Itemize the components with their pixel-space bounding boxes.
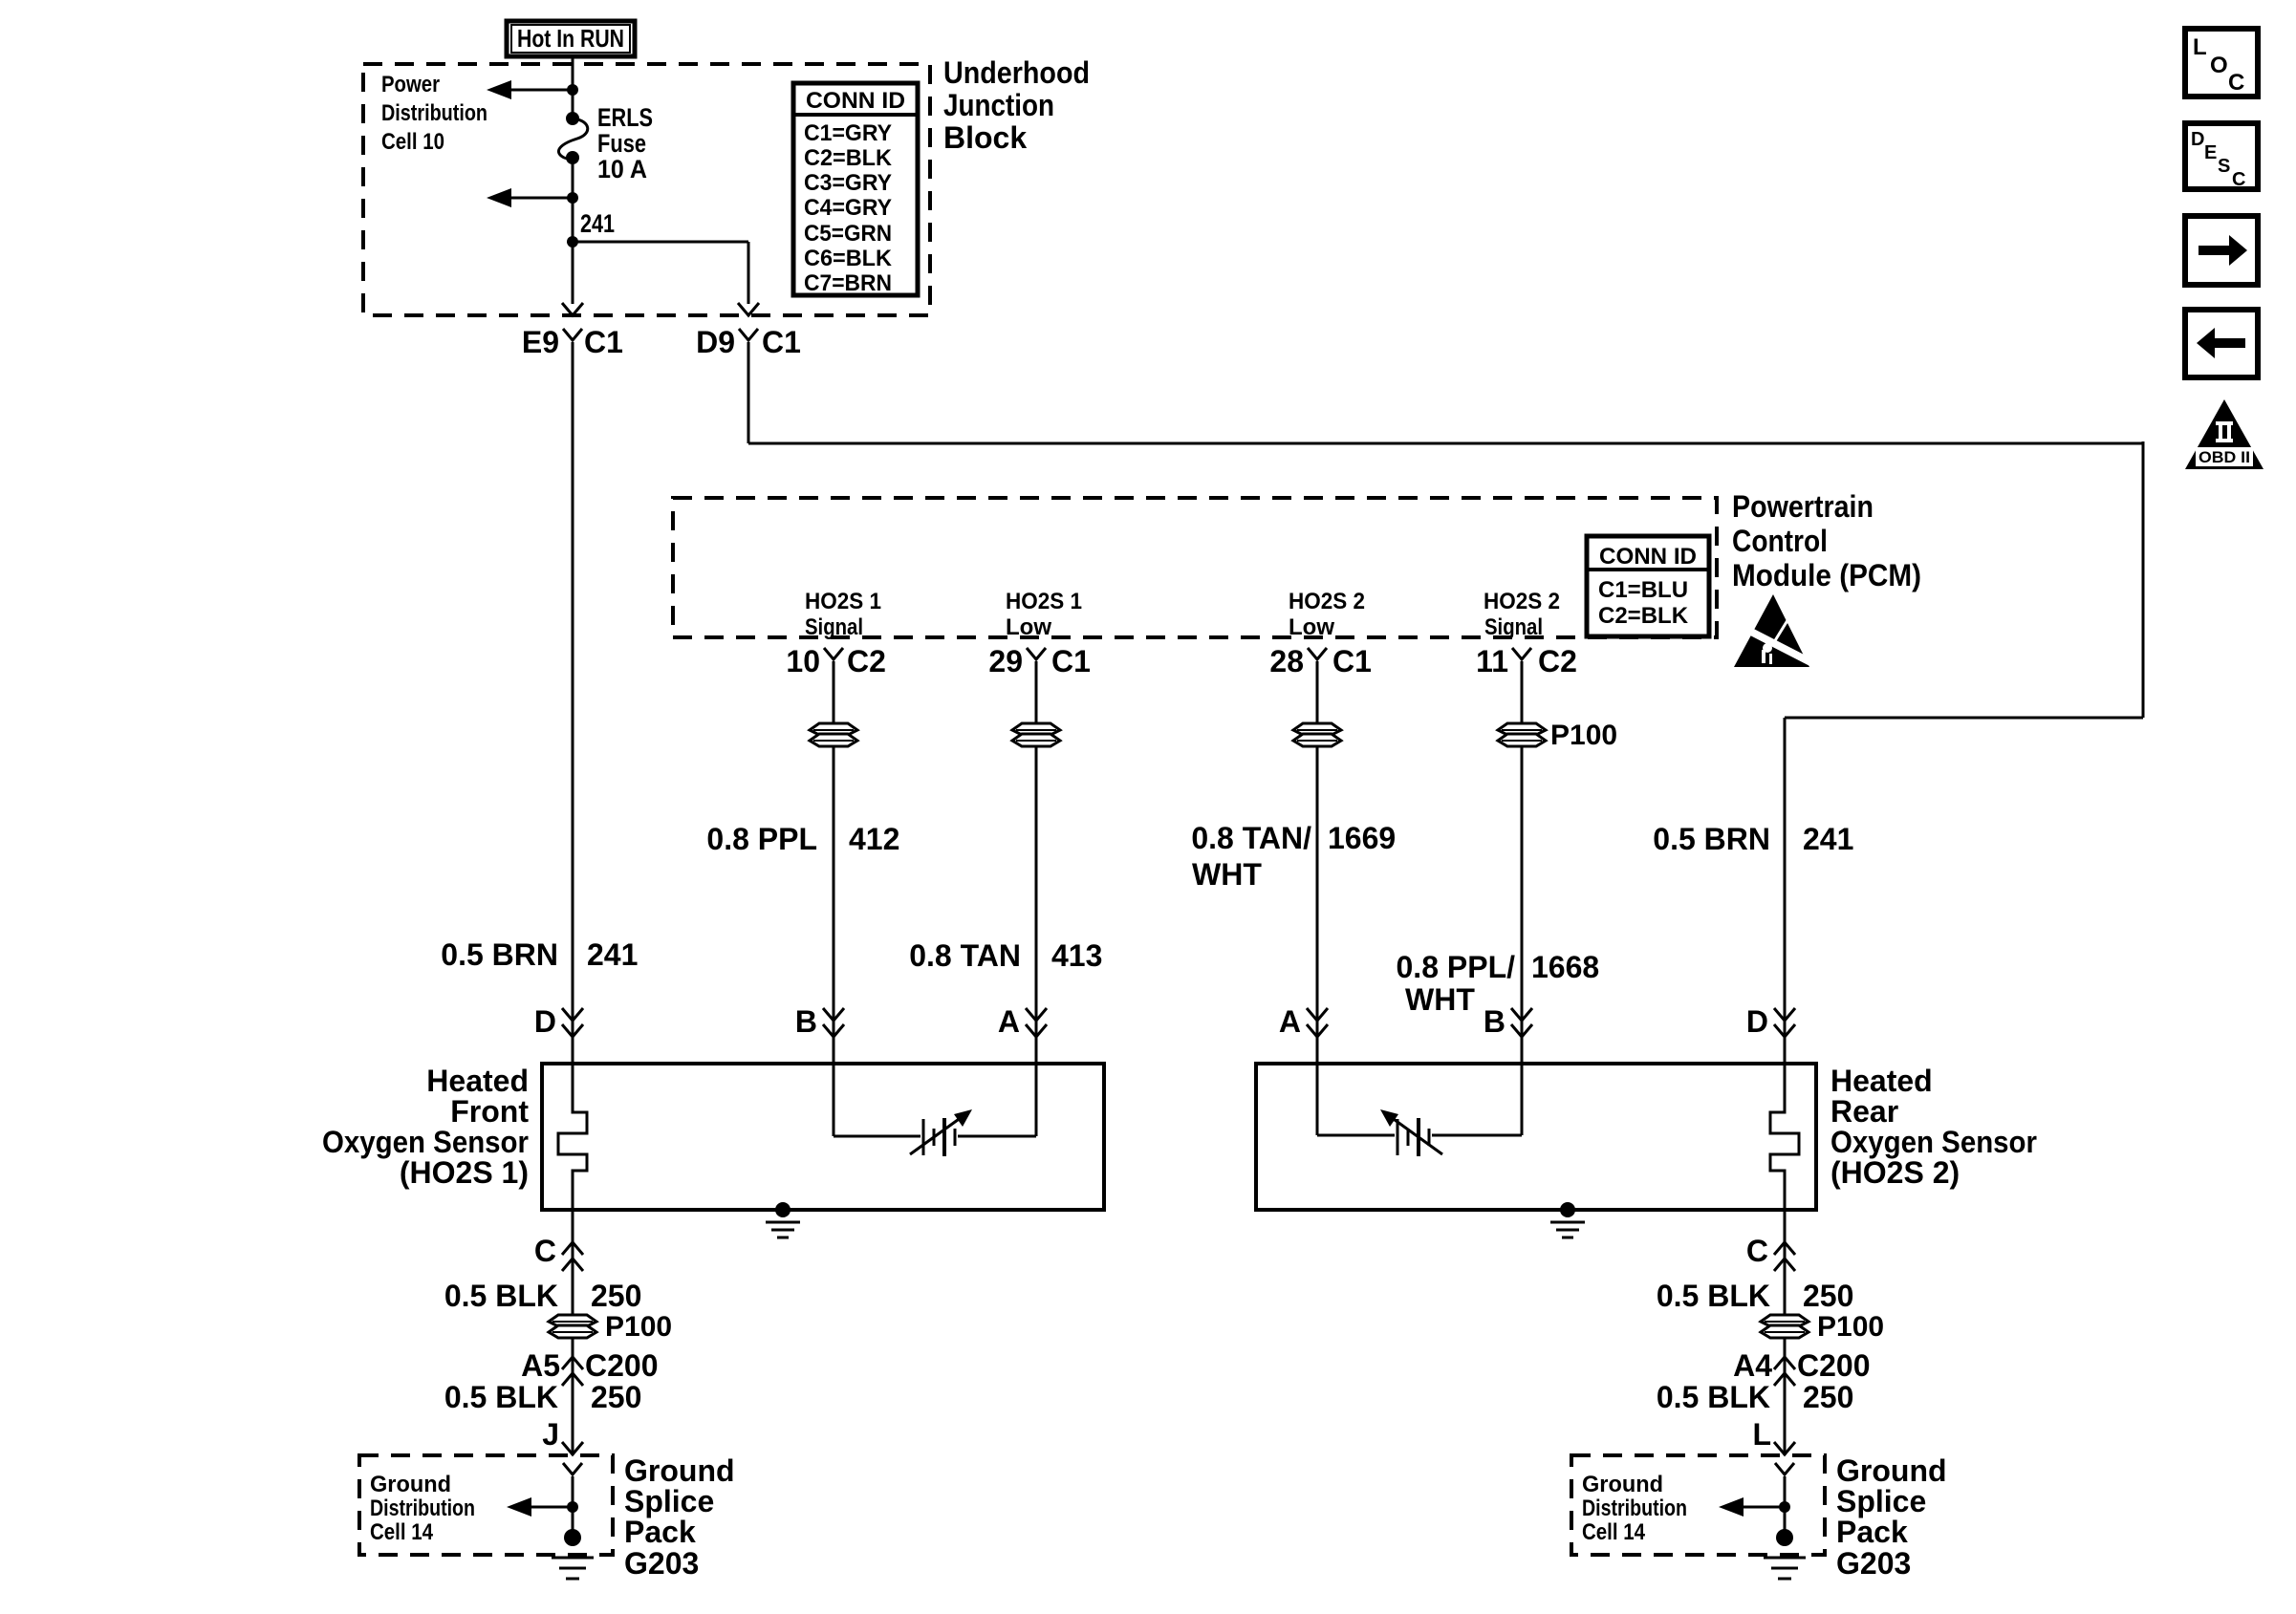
pin C arrow out of sensor (right) <box>1746 1210 1795 1455</box>
svg-text:WHT: WHT <box>1405 982 1475 1017</box>
label: Ground Distribution Cell 14 (left) <box>370 1472 475 1545</box>
svg-text:Pack: Pack <box>1836 1515 1908 1549</box>
svg-text:Low: Low <box>1289 614 1334 640</box>
sensor element (rear) <box>1380 1109 1442 1156</box>
svg-text:C1: C1 <box>762 325 801 359</box>
wire: B to sensor element (front) <box>834 1064 921 1136</box>
svg-text:C2=BLK: C2=BLK <box>804 145 893 171</box>
grommet on wire 1669 <box>1293 723 1341 735</box>
PCM dashed boundary <box>673 498 1717 637</box>
svg-text:D: D <box>1746 1004 1768 1039</box>
svg-text:Distribution: Distribution <box>381 100 487 126</box>
svg-text:G203: G203 <box>624 1546 699 1581</box>
svg-text:A: A <box>998 1004 1020 1039</box>
pin A arrow into sensor <box>1279 1004 1328 1039</box>
ground distribution dashed boundary (right) <box>1571 1455 1825 1555</box>
svg-text:Oxygen Sensor: Oxygen Sensor <box>1830 1125 2037 1159</box>
connector D9 C1 <box>696 325 801 359</box>
svg-text:250: 250 <box>1803 1380 1853 1414</box>
svg-text:Cell 14: Cell 14 <box>370 1519 434 1545</box>
svg-text:CONN ID: CONN ID <box>1599 544 1697 570</box>
svg-text:Rear: Rear <box>1830 1094 1898 1129</box>
ground G203 (right) <box>1764 1529 1806 1579</box>
grommet P100 (right) <box>1761 1311 1884 1343</box>
svg-text:WHT: WHT <box>1192 857 1262 892</box>
PCM pin 28 C1 <box>1269 644 1372 678</box>
PCM pin label HO2S 1 Signal <box>805 589 881 640</box>
svg-text:A: A <box>1279 1004 1301 1039</box>
svg-text:C2: C2 <box>847 644 886 678</box>
wire 412: pin 10 to HO2S1 B <box>833 661 835 1064</box>
connector A4 C200 (right) <box>1733 1348 1870 1386</box>
svg-text:C1=BLU: C1=BLU <box>1598 577 1688 603</box>
svg-text:10 A: 10 A <box>597 155 647 183</box>
svg-text:CONN ID: CONN ID <box>806 88 905 114</box>
svg-text:Front: Front <box>450 1094 529 1129</box>
svg-text:Ground: Ground <box>370 1472 451 1497</box>
svg-text:G203: G203 <box>1836 1546 1911 1581</box>
wire label 0.8 TAN/WHT 1669 <box>1191 821 1396 892</box>
svg-text:250: 250 <box>591 1279 641 1313</box>
ESD sensitivity symbol <box>1734 594 1818 667</box>
svg-text:Splice: Splice <box>624 1484 714 1518</box>
svg-text:0.8 PPL/: 0.8 PPL/ <box>1397 950 1516 984</box>
label: Power Distribution Cell 10 <box>381 72 487 155</box>
svg-text:OBD II: OBD II <box>2199 448 2250 466</box>
wire 1668: pin 11 to HO2S2 B <box>1521 661 1524 1064</box>
wire label 0.5 BRN 241 (left) <box>441 937 638 972</box>
svg-text:C1: C1 <box>1051 644 1091 678</box>
svg-text:C2: C2 <box>1538 644 1577 678</box>
svg-text:C200: C200 <box>1797 1348 1871 1383</box>
wire label 0.8 PPL 412 <box>706 822 899 856</box>
svg-text:Signal: Signal <box>1484 614 1543 640</box>
splice connector Y (left) <box>563 1463 582 1538</box>
PCM pin 11 C2 <box>1476 644 1577 678</box>
svg-text:C7=BRN: C7=BRN <box>804 270 892 296</box>
prev-page arrow button <box>2185 310 2258 377</box>
svg-text:D: D <box>2191 129 2204 150</box>
svg-text:Control: Control <box>1732 524 1828 558</box>
svg-text:0.8 TAN/: 0.8 TAN/ <box>1191 821 1311 855</box>
svg-text:Heated: Heated <box>1830 1064 1933 1098</box>
svg-text:0.5 BLK: 0.5 BLK <box>444 1279 558 1313</box>
sensor element (front) <box>910 1109 972 1156</box>
svg-text:B: B <box>795 1004 817 1039</box>
wire label 0.5 BLK 250 lower (right) <box>1657 1380 1854 1414</box>
PCM pin label HO2S 1 Low <box>1006 589 1082 640</box>
svg-text:Ground: Ground <box>1582 1472 1663 1497</box>
svg-text:E9: E9 <box>522 325 559 359</box>
wire label 0.8 PPL/WHT 1668 <box>1397 950 1600 1017</box>
svg-text:Cell 10: Cell 10 <box>381 129 444 155</box>
svg-text:L: L <box>2193 34 2207 60</box>
wire 241: E9 down to HO2S1 pin D <box>572 342 574 1064</box>
PCM pin 10 C2 <box>786 644 886 678</box>
svg-text:Pack: Pack <box>624 1515 696 1549</box>
svg-text:Ground: Ground <box>1836 1453 1947 1488</box>
svg-text:C200: C200 <box>585 1348 659 1383</box>
svg-text:P100: P100 <box>1550 720 1617 751</box>
svg-text:E: E <box>2204 142 2217 163</box>
splice branch arrow (left) <box>507 1497 578 1517</box>
svg-text:A4: A4 <box>1733 1348 1772 1383</box>
PCM pin 29 C1 <box>988 644 1091 678</box>
svg-text:Fuse: Fuse <box>597 129 646 158</box>
next-page arrow button <box>2185 216 2258 285</box>
svg-text:Heated: Heated <box>426 1064 529 1098</box>
wire 241: D9 route right and down to HO2S2 pin D <box>748 342 2143 1064</box>
svg-text:241: 241 <box>587 937 638 972</box>
junction: feed branch 1 <box>567 84 578 96</box>
underhood junction block dashed boundary <box>363 64 930 315</box>
svg-text:HO2S 1: HO2S 1 <box>1006 589 1082 614</box>
ground junction on rear sensor case <box>1550 1202 1585 1237</box>
svg-text:0.8 TAN: 0.8 TAN <box>909 938 1021 973</box>
connector A5 C200 (left) <box>521 1348 658 1386</box>
svg-text:250: 250 <box>591 1380 641 1414</box>
DESC nav button <box>2185 123 2258 190</box>
splice branch arrow (right) <box>1719 1497 1790 1517</box>
svg-text:0.5 BLK: 0.5 BLK <box>444 1380 558 1414</box>
grommet P100 (left) <box>549 1311 672 1343</box>
label: Ground Splice Pack G203 (right) <box>1836 1453 1947 1581</box>
svg-text:Underhood: Underhood <box>943 55 1090 90</box>
svg-text:Splice: Splice <box>1836 1484 1926 1518</box>
svg-text:C: C <box>534 1234 556 1268</box>
svg-text:(HO2S 1): (HO2S 1) <box>400 1155 529 1190</box>
svg-text:Junction: Junction <box>943 88 1054 122</box>
svg-text:A5: A5 <box>521 1348 560 1383</box>
svg-text:0.5 BRN: 0.5 BRN <box>441 937 558 972</box>
svg-text:Powertrain: Powertrain <box>1732 489 1874 524</box>
svg-text:Hot In RUN: Hot In RUN <box>517 24 624 53</box>
svg-text:C1: C1 <box>1332 644 1372 678</box>
ground G203 (left) <box>552 1529 594 1579</box>
svg-text:0.5 BLK: 0.5 BLK <box>1657 1279 1770 1313</box>
svg-text:1668: 1668 <box>1531 950 1599 984</box>
wire label 0.5 BLK 250 lower (left) <box>444 1380 642 1414</box>
svg-text:28: 28 <box>1269 644 1304 678</box>
svg-text:250: 250 <box>1803 1279 1853 1313</box>
wire label 0.5 BRN 241 (right) <box>1653 822 1853 856</box>
connector E9 C1 <box>522 325 623 359</box>
pin B arrow into sensor <box>795 1004 844 1039</box>
svg-text:Block: Block <box>943 120 1027 155</box>
svg-text:29: 29 <box>988 644 1023 678</box>
CONN ID table (junction block) <box>793 83 918 296</box>
svg-text:1669: 1669 <box>1328 821 1396 855</box>
svg-text:Cell 14: Cell 14 <box>1582 1519 1646 1545</box>
svg-text:C6=BLK: C6=BLK <box>804 246 893 271</box>
svg-text:C2=BLK: C2=BLK <box>1598 603 1689 629</box>
svg-text:Module (PCM): Module (PCM) <box>1732 558 1921 592</box>
wire label 0.5 BLK 250 upper (right) <box>1657 1279 1854 1313</box>
svg-text:HO2S 1: HO2S 1 <box>805 589 881 614</box>
splice connector Y (right) <box>1775 1463 1794 1538</box>
svg-text:C1: C1 <box>584 325 623 359</box>
svg-text:P100: P100 <box>605 1311 672 1343</box>
pin L arrow into splice pack (right) <box>1752 1417 1795 1454</box>
wire label 0.8 TAN 413 <box>909 938 1102 973</box>
svg-text:11: 11 <box>1476 644 1508 678</box>
svg-text:S: S <box>2218 156 2230 177</box>
grommet P100 on wire 1668 <box>1498 720 1617 751</box>
svg-text:Oxygen Sensor: Oxygen Sensor <box>322 1125 529 1159</box>
svg-text:ERLS: ERLS <box>597 103 653 132</box>
svg-text:Low: Low <box>1006 614 1051 640</box>
fuse ERLS Fuse 10 A <box>558 112 587 164</box>
svg-text:C: C <box>1746 1234 1768 1268</box>
grommet on wire 413 <box>1012 723 1060 735</box>
grommet on wire 412 <box>810 723 857 735</box>
wire: branch right to D9 <box>573 242 759 315</box>
pin D arrow into sensor <box>534 1004 583 1039</box>
label: Ground Distribution Cell 14 (right) <box>1582 1472 1687 1545</box>
svg-text:Power: Power <box>381 72 440 97</box>
PCM pin label HO2S 2 Signal <box>1484 589 1560 640</box>
ground distribution dashed boundary (left) <box>359 1455 613 1555</box>
heater element (rear) <box>1770 1064 1799 1210</box>
label: Ground Splice Pack G203 (left) <box>624 1453 735 1581</box>
wire: A to sensor element (rear) <box>1317 1064 1395 1135</box>
wire label 0.5 BLK 250 upper (left) <box>444 1279 642 1313</box>
PCM CONN ID table <box>1587 536 1709 636</box>
svg-text:C5=GRN: C5=GRN <box>804 221 892 247</box>
value label: ERLS Fuse 10 A <box>597 103 653 183</box>
junction: node 241 split <box>567 236 578 247</box>
label: Heated Rear Oxygen Sensor (HO2S 2) <box>1830 1064 2037 1190</box>
svg-text:241: 241 <box>1803 822 1853 856</box>
wire 1669: pin 28 to HO2S2 A <box>1316 661 1319 1064</box>
label: Powertrain Control Module (PCM) <box>1732 489 1921 592</box>
svg-text:10: 10 <box>786 644 820 678</box>
wire: branch arrow left (to other circuits) <box>487 80 573 99</box>
label: Heated Front Oxygen Sensor (HO2S 1) <box>322 1064 529 1190</box>
svg-text:C3=GRY: C3=GRY <box>804 170 892 196</box>
svg-text:L: L <box>1752 1417 1771 1452</box>
power feed box "Hot In RUN" <box>507 21 635 56</box>
svg-text:HO2S 2: HO2S 2 <box>1289 589 1365 614</box>
LOC nav button <box>2185 29 2258 97</box>
svg-text:HO2S 2: HO2S 2 <box>1484 589 1560 614</box>
wire: fuse to splice 241 <box>572 158 574 242</box>
svg-text:413: 413 <box>1051 938 1102 973</box>
OBD II marker triangle <box>2185 399 2264 469</box>
Heated Rear Oxygen Sensor (HO2S 2) box <box>1256 1064 1816 1210</box>
ground junction on front sensor case <box>766 1202 800 1237</box>
svg-text:Signal: Signal <box>805 614 863 640</box>
label: Underhood Junction Block <box>943 55 1090 155</box>
svg-text:0.8 PPL: 0.8 PPL <box>706 822 817 856</box>
svg-text:D: D <box>534 1004 556 1039</box>
wire: branch arrow left 2 <box>487 188 573 207</box>
svg-text:C: C <box>2228 70 2244 96</box>
svg-text:C4=GRY: C4=GRY <box>804 195 892 221</box>
svg-text:D9: D9 <box>696 325 735 359</box>
Heated Front Oxygen Sensor (HO2S 1) box <box>542 1064 1104 1210</box>
svg-text:P100: P100 <box>1817 1311 1884 1343</box>
svg-text:B: B <box>1484 1004 1505 1039</box>
svg-text:412: 412 <box>849 822 899 856</box>
svg-text:C: C <box>2232 169 2245 190</box>
wire: feed from Hot In RUN down <box>572 55 574 118</box>
svg-text:Distribution: Distribution <box>370 1496 475 1521</box>
junction: feed branch 2 <box>567 192 578 204</box>
svg-text:C1=GRY: C1=GRY <box>804 120 892 146</box>
svg-text:J: J <box>542 1417 559 1452</box>
wire: down to E9 <box>562 242 583 315</box>
svg-text:Ground: Ground <box>624 1453 735 1488</box>
svg-text:241: 241 <box>580 209 615 238</box>
heater element (front) <box>558 1064 587 1210</box>
pin D arrow into sensor <box>1746 1004 1795 1039</box>
pin C arrow out of sensor (left) <box>534 1210 583 1455</box>
PCM pin label HO2S 2 Low <box>1289 589 1365 640</box>
svg-text:Distribution: Distribution <box>1582 1496 1687 1521</box>
svg-text:(HO2S 2): (HO2S 2) <box>1830 1155 1960 1190</box>
svg-text:0.5 BRN: 0.5 BRN <box>1653 822 1770 856</box>
wire 413: pin 29 to HO2S1 A <box>1035 661 1038 1064</box>
pin B arrow into sensor <box>1484 1004 1532 1039</box>
wire: sensor element to A (front) <box>958 1064 1036 1136</box>
svg-text:0.5 BLK: 0.5 BLK <box>1657 1380 1770 1414</box>
svg-text:O: O <box>2210 53 2228 78</box>
pin A arrow into sensor <box>998 1004 1047 1039</box>
wire: sensor element to B (rear) <box>1432 1064 1522 1135</box>
pin J arrow into splice pack (left) <box>542 1417 583 1454</box>
